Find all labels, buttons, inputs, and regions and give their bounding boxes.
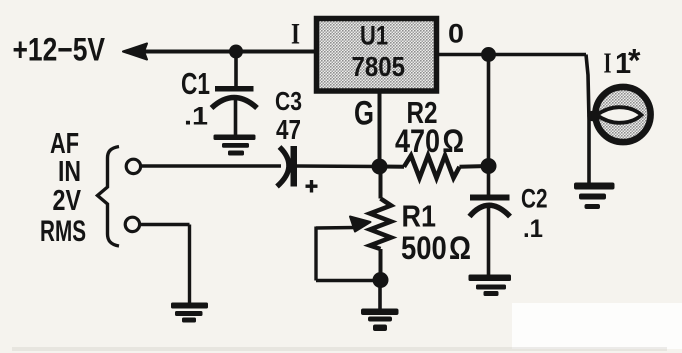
terminal: AF input bottom [125, 217, 139, 231]
svg-text:500 Ω: 500 Ω [401, 230, 471, 266]
svg-text:47: 47 [276, 114, 301, 145]
wire: lamp feed down right side [586, 55, 589, 184]
capacitor C2 [470, 195, 511, 276]
ground (input) [171, 303, 208, 323]
svg-text:7805: 7805 [352, 51, 406, 82]
capacitor C3 [277, 146, 297, 187]
svg-text:.1: .1 [523, 215, 543, 243]
wire: output node down to C2 [487, 55, 491, 196]
wire: C3 to G node [297, 164, 380, 168]
svg-text:IN: IN [58, 156, 81, 188]
regulator U1 7805 [317, 19, 437, 92]
label C2 value [521, 184, 548, 244]
resistor R2 [380, 156, 489, 179]
input brace [98, 147, 120, 247]
lamp I1 [587, 87, 650, 142]
svg-text:+12−5V: +12−5V [13, 32, 106, 68]
svg-text:C1: C1 [181, 66, 210, 101]
capacitor C1 [212, 86, 258, 136]
input labels AF IN 2V RMS [40, 128, 86, 248]
label I1* [604, 43, 642, 81]
svg-text:C3: C3 [275, 86, 302, 116]
label R2 value [395, 95, 464, 159]
node: supply junction [229, 45, 243, 59]
svg-text:470 Ω: 470 Ω [395, 123, 464, 159]
wire: G pin down to mid rail [378, 92, 382, 167]
ground (C1) [214, 135, 256, 156]
svg-text:C2: C2 [521, 184, 548, 214]
node: R2 / C2 junction [481, 158, 497, 174]
node: G / wiper rail junction [372, 159, 388, 175]
svg-text:U1: U1 [360, 21, 388, 51]
svg-text:0: 0 [448, 19, 464, 49]
node: R1 bottom junction [373, 272, 389, 288]
svg-text:I: I [604, 48, 612, 80]
wire: input terminal to C3 [140, 164, 281, 167]
svg-text:RMS: RMS [40, 215, 86, 248]
net label +12-5V [13, 32, 106, 68]
resistor R1 potentiometer [370, 167, 391, 281]
label R1 value [401, 199, 471, 267]
svg-text:G: G [354, 95, 374, 133]
svg-text:R1: R1 [402, 199, 437, 234]
polarity + for C3 [306, 180, 318, 193]
ground (C2) [469, 275, 512, 297]
wire: top supply rail from arrow to U1 input [127, 50, 315, 54]
supply arrow head [123, 44, 147, 60]
ground (lamp) [574, 183, 615, 210]
pin label I [291, 18, 300, 51]
wire: U1 output to lamp corner [439, 53, 586, 57]
svg-text:2V: 2V [53, 185, 82, 217]
label C1 value [181, 66, 210, 131]
svg-text:*: * [628, 43, 641, 79]
node: output junction [481, 47, 496, 62]
wiper arrow of R1 [316, 217, 381, 281]
label C3 value [275, 86, 302, 145]
wire: bottom terminal to ground drop [140, 225, 190, 304]
svg-text:.1: .1 [184, 103, 208, 131]
pin label G [354, 95, 374, 133]
terminal: AF input top [126, 159, 140, 173]
svg-text:I: I [291, 18, 300, 51]
wire: C1 branch down from junction [234, 52, 238, 88]
pin label O [448, 19, 464, 49]
ground (R1) [361, 309, 399, 332]
wire: R1 node to ground [378, 280, 382, 310]
